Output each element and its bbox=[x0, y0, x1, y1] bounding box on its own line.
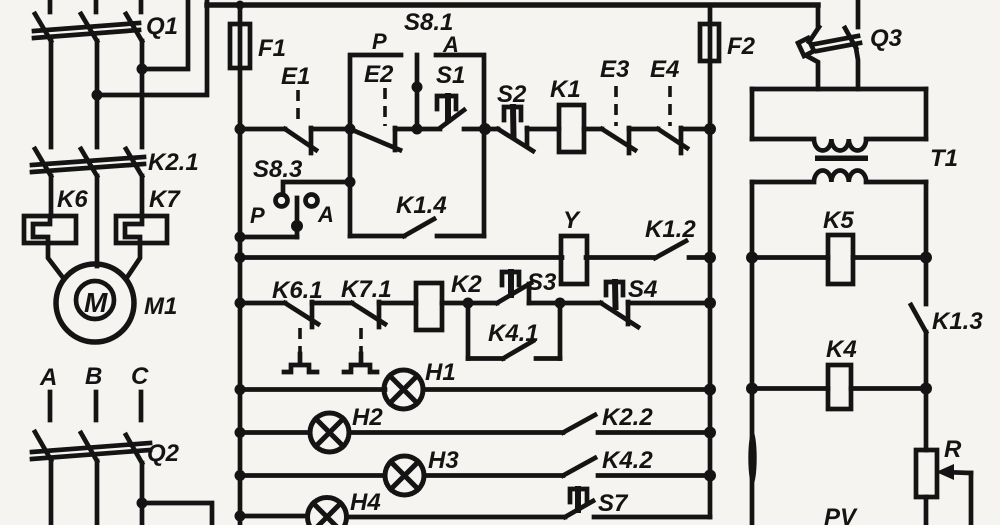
S1 comb bbox=[437, 96, 456, 109]
node K4 left bbox=[746, 383, 758, 395]
thermal contact E3 bbox=[600, 56, 658, 153]
svg-text:K5: K5 bbox=[823, 207, 854, 234]
T1 secondary top with winding bbox=[752, 170, 926, 182]
S7 comb bbox=[570, 489, 587, 502]
blob on PV branch bbox=[748, 431, 756, 485]
node pole3 tap bbox=[137, 64, 148, 75]
wire S7 right bbox=[594, 515, 710, 520]
relay coil K4 row bbox=[746, 336, 932, 409]
Q3 left pole bbox=[816, 5, 821, 27]
K4.2 blade bbox=[563, 458, 595, 476]
wire H1 left bbox=[240, 387, 385, 392]
E2 actuator dashed bbox=[383, 88, 387, 126]
K7.1 dashed link bbox=[359, 328, 363, 357]
K2.1 linkage bar bbox=[32, 157, 144, 165]
relay coil K5 row bbox=[746, 207, 932, 284]
wire Q2 pole2 down bbox=[95, 461, 100, 525]
wire x350 vertical row1 to K1.4 bbox=[348, 129, 353, 236]
switch Q2 three-pole bbox=[32, 432, 180, 467]
T1 primary left side bbox=[750, 89, 755, 139]
wire H4 left bbox=[240, 514, 307, 519]
svg-text:K6: K6 bbox=[57, 186, 88, 213]
wire above R bbox=[924, 389, 929, 451]
Q3 fuse marker square bbox=[798, 38, 814, 56]
Q1 blade pole2 bbox=[81, 14, 97, 41]
svg-text:H3: H3 bbox=[428, 447, 459, 474]
svg-text:S4: S4 bbox=[628, 276, 657, 303]
wire row3 seg1 bbox=[240, 301, 285, 306]
svg-text:K4: K4 bbox=[826, 336, 857, 363]
fuse F1 bbox=[230, 5, 286, 68]
wire pole1 Q1 to K2.1 bbox=[49, 41, 54, 147]
svg-text:F1: F1 bbox=[258, 35, 286, 62]
switch Q1 three-pole bbox=[34, 0, 178, 41]
node Q2 pole3 branch bbox=[137, 498, 148, 509]
K4.1 blade bbox=[503, 341, 533, 359]
R wiper arrow bbox=[944, 472, 971, 473]
wire H1 right bbox=[423, 387, 710, 392]
S4 fixed stub bbox=[626, 302, 631, 324]
S4 blade bbox=[601, 303, 638, 327]
wire pole2 tap to top bbox=[97, 0, 207, 95]
svg-text:K7: K7 bbox=[149, 186, 181, 213]
node C incoming phase bbox=[131, 363, 149, 420]
wire row2 seg1 bbox=[240, 255, 562, 260]
E1 actuator dashed bbox=[296, 90, 300, 125]
K6.1 manual head bbox=[284, 354, 317, 372]
node H1 right bus bbox=[704, 384, 716, 396]
E4 actuator dashed bbox=[668, 86, 672, 126]
Q2 blade pole1 bbox=[35, 432, 51, 460]
wire S8.3 P to node bbox=[283, 182, 350, 194]
wire Q1 pole3 top stub bbox=[139, 0, 144, 12]
switch Q3 two-pole bbox=[798, 0, 903, 89]
wire S8.3 rail bbox=[240, 235, 297, 240]
wire K6 to motor bbox=[48, 243, 64, 279]
Q3 right drop bbox=[856, 48, 858, 89]
node H2 right bus bbox=[704, 427, 716, 439]
wire K4.1 left bbox=[468, 356, 503, 361]
S1 blade bbox=[440, 110, 464, 128]
wire row3 seg4 bbox=[628, 301, 710, 306]
node row2 right bus bbox=[704, 252, 716, 264]
K2.1 blade pole2 bbox=[81, 149, 97, 176]
S2 comb bbox=[504, 107, 521, 120]
Q3 right blade bbox=[845, 28, 856, 48]
node A incoming phase bbox=[39, 364, 57, 420]
K2.1 blade pole1 bbox=[35, 149, 51, 176]
wire K5 right bbox=[853, 255, 926, 260]
svg-text:K1: K1 bbox=[550, 76, 581, 103]
svg-text:B: B bbox=[85, 363, 102, 390]
wire H4 mid bbox=[347, 515, 565, 520]
svg-text:T1: T1 bbox=[930, 145, 958, 172]
S2 fixed stub bbox=[525, 128, 530, 144]
wire row2 seg2 bbox=[586, 255, 655, 260]
S8.1 roof A side bbox=[436, 55, 484, 129]
wire Q1 pole1 top stub bbox=[48, 0, 53, 12]
S3 comb bbox=[502, 272, 519, 285]
svg-text:Y: Y bbox=[563, 207, 581, 234]
K2.1 blade pole3 bbox=[126, 149, 142, 176]
svg-text:S2: S2 bbox=[497, 81, 527, 108]
node bus row3 left bbox=[235, 298, 246, 309]
wire Q2 pole1 down bbox=[49, 460, 54, 525]
clutch coil K6 bbox=[24, 186, 88, 243]
lamp row H1 bbox=[235, 359, 717, 409]
T1 primary yoke bbox=[752, 87, 926, 92]
svg-text:K1.2: K1.2 bbox=[645, 216, 696, 243]
svg-text:A: A bbox=[317, 202, 334, 227]
node K4 right bbox=[920, 383, 932, 395]
wire K5 left bbox=[752, 255, 828, 260]
svg-text:C: C bbox=[131, 363, 149, 390]
relay coil K5 bbox=[828, 235, 853, 284]
node bus H2 bbox=[235, 427, 246, 438]
wire row3 seg3 bbox=[529, 301, 601, 306]
S8.3 contact P circle bbox=[276, 195, 288, 207]
Q2 blade pole2 bbox=[81, 433, 97, 461]
K1.3 blade bbox=[911, 305, 926, 332]
svg-text:H1: H1 bbox=[425, 359, 456, 386]
node row1 x485 bbox=[479, 123, 491, 135]
wire H3 mid bbox=[424, 473, 563, 478]
node row1 x350 bbox=[345, 124, 356, 135]
contact K6.1 bbox=[272, 277, 352, 372]
wire left branch down to PV bbox=[750, 258, 755, 525]
S4 comb bbox=[606, 282, 623, 295]
node bus row2 left bbox=[235, 252, 246, 263]
pushbutton S2 bbox=[497, 81, 533, 151]
wire K1.2 right bbox=[689, 255, 710, 260]
relay coil K1 bbox=[550, 76, 584, 152]
pushbutton S4 bbox=[601, 276, 657, 327]
coil Y electromagnet bbox=[561, 207, 587, 284]
svg-text:K1.4: K1.4 bbox=[396, 192, 447, 219]
contact K7.1 bbox=[341, 276, 416, 372]
selector switch S8.3 bbox=[235, 156, 356, 243]
fuse F2 bbox=[700, 5, 756, 61]
wire K4 left bbox=[752, 386, 828, 391]
node bus H1 bbox=[235, 384, 246, 395]
svg-text:K4.1: K4.1 bbox=[488, 320, 539, 347]
wire H3 left bbox=[240, 473, 385, 478]
contactor K2.1 three-pole bbox=[32, 149, 199, 176]
lamp row H3 with contact K4.2 bbox=[235, 447, 717, 495]
Q1 blade pole3 bbox=[126, 14, 142, 41]
thermal contact E2 bbox=[350, 61, 417, 150]
Q3 right pole bbox=[856, 0, 861, 27]
wire right control bus bbox=[708, 61, 713, 517]
node bus S8.3 rail bbox=[235, 232, 246, 243]
Q3 linkage bar bbox=[815, 36, 858, 44]
Q2 linkage bar bbox=[32, 443, 150, 452]
wire K1.4 left bbox=[350, 234, 404, 239]
wire K2.2 right bbox=[598, 430, 710, 435]
T1 secondary left side bbox=[750, 182, 755, 258]
wire row1 seg5 bbox=[527, 127, 559, 132]
transformer T1 bbox=[752, 89, 958, 258]
wire below K1.3 bbox=[924, 332, 929, 389]
node row1 right bus bbox=[704, 123, 716, 135]
lamp row H4 with pushbutton S7 bbox=[235, 489, 711, 525]
contact K1.2 bbox=[645, 216, 710, 258]
wire row3 seg2 bbox=[442, 301, 497, 306]
S3 fixed stub bbox=[527, 284, 532, 303]
svg-text:S8.3: S8.3 bbox=[253, 156, 303, 183]
svg-text:K7.1: K7.1 bbox=[341, 276, 392, 303]
svg-text:E2: E2 bbox=[364, 61, 394, 88]
node B incoming phase bbox=[85, 363, 102, 420]
svg-text:A: A bbox=[39, 364, 57, 391]
wire branch right down bbox=[142, 503, 212, 525]
node row3 x560 bbox=[555, 298, 566, 309]
svg-text:K1.3: K1.3 bbox=[932, 308, 983, 335]
K7.1 manual head bbox=[344, 354, 377, 372]
S2 blade bbox=[498, 129, 533, 151]
contact K4.1 bypass bbox=[468, 303, 560, 359]
wire K4.1 right bbox=[536, 356, 560, 361]
wire below R bbox=[924, 497, 929, 525]
wire top control bus bbox=[207, 2, 818, 8]
wire pole3 to K7 bbox=[140, 176, 145, 216]
svg-text:F2: F2 bbox=[727, 33, 756, 60]
wire x484 vertical row1 to K1.4 bbox=[482, 129, 487, 236]
wire K4.1 right rise bbox=[558, 303, 563, 359]
wire H2 left bbox=[240, 430, 310, 435]
clutch coil K7 bbox=[116, 186, 181, 243]
wire above K1.3 bbox=[924, 258, 929, 305]
svg-text:Q2: Q2 bbox=[147, 440, 180, 467]
wire pole2 Q1 to K2.1 bbox=[95, 41, 100, 147]
motor M1 bbox=[56, 264, 177, 342]
K1.4 blade bbox=[404, 219, 434, 236]
wire K4.1 left drop bbox=[466, 303, 471, 359]
contact K1.3 bbox=[911, 258, 983, 389]
svg-text:Q3: Q3 bbox=[870, 25, 903, 52]
node bus H3 bbox=[235, 470, 246, 481]
S3 blade bbox=[497, 283, 531, 303]
wire row1 seg3 bbox=[417, 127, 440, 132]
node row3 x468 bbox=[463, 298, 474, 309]
wire pole3 Q1 to K2.1 bbox=[140, 41, 145, 147]
S8.3 pole bbox=[295, 198, 300, 237]
node K5 right bbox=[920, 252, 932, 264]
node S8.1 pivot bbox=[412, 82, 423, 93]
S8.1 common pole bbox=[415, 55, 420, 129]
lamp H2 bbox=[310, 413, 349, 452]
svg-text:M1: M1 bbox=[144, 293, 177, 320]
node bus H4 bbox=[235, 511, 246, 522]
wire K4.2 right bbox=[598, 473, 710, 478]
svg-text:Q1: Q1 bbox=[146, 13, 178, 40]
wire row1 seg1 bbox=[240, 127, 285, 132]
wire wiper down bbox=[969, 473, 974, 525]
node bus row1 left bbox=[235, 124, 246, 135]
svg-text:K4.2: K4.2 bbox=[602, 447, 653, 474]
lamp H3 bbox=[385, 456, 424, 495]
svg-text:P: P bbox=[372, 29, 387, 54]
node row3 right bus bbox=[704, 297, 716, 309]
K2.2 blade bbox=[563, 415, 595, 433]
svg-text:P: P bbox=[250, 203, 265, 228]
K6.1 dashed link bbox=[298, 328, 302, 357]
E3 actuator dashed bbox=[614, 86, 618, 126]
svg-text:E3: E3 bbox=[600, 56, 630, 83]
lamp H1 bbox=[384, 370, 423, 409]
Q1 linkage bar bbox=[34, 23, 139, 31]
wire Q1 pole2 top stub bbox=[94, 0, 99, 12]
node S8.3 pole bbox=[291, 220, 303, 232]
T1 core bbox=[815, 156, 868, 162]
S8.1 roof P side bbox=[350, 55, 401, 129]
svg-text:S3: S3 bbox=[527, 269, 557, 296]
wire left control bus bbox=[238, 68, 243, 525]
Q3 left blade bbox=[809, 27, 819, 42]
svg-text:K2: K2 bbox=[451, 271, 482, 298]
svg-text:H2: H2 bbox=[352, 404, 383, 431]
thermal contact E1 bbox=[281, 63, 350, 153]
wire H2 mid bbox=[349, 430, 563, 435]
wire K4 right bbox=[851, 386, 926, 391]
S8.3 contact A circle bbox=[306, 195, 318, 207]
Q1 blade pole1 bbox=[35, 14, 51, 41]
svg-text:K2.1: K2.1 bbox=[148, 149, 199, 176]
svg-text:E4: E4 bbox=[650, 56, 679, 83]
node K5 left bbox=[746, 252, 758, 264]
node row1 x417 bbox=[412, 124, 423, 135]
svg-text:K2.2: K2.2 bbox=[602, 404, 653, 431]
K1.2 blade bbox=[655, 241, 686, 258]
lamp H4 bbox=[308, 498, 347, 525]
S7 blade bbox=[565, 501, 593, 517]
svg-text:M: M bbox=[84, 287, 108, 318]
svg-text:S7: S7 bbox=[598, 490, 629, 517]
thermal contact E4 bbox=[650, 56, 710, 153]
wire row1 seg4 bbox=[464, 127, 498, 132]
Q3 left drop bbox=[807, 56, 818, 89]
node x350 y182 bbox=[345, 177, 356, 188]
T1 primary right side bbox=[924, 89, 929, 139]
wire pole1 to K6 bbox=[49, 176, 54, 216]
selector switch S8.1 bbox=[350, 9, 484, 129]
T1 primary bottom with winding bbox=[752, 139, 926, 151]
Q2 blade pole3 bbox=[126, 435, 142, 463]
wire pole2 to motor bbox=[95, 176, 100, 266]
lamp row H2 with contact K2.2 bbox=[235, 404, 717, 452]
svg-text:E1: E1 bbox=[281, 63, 310, 90]
T1 secondary right side bbox=[924, 182, 929, 258]
wire row1 seg6 bbox=[584, 127, 602, 132]
pushbutton S1 bbox=[436, 62, 465, 128]
node H3 right bus bbox=[704, 470, 716, 482]
rheostat R bbox=[916, 389, 971, 525]
relay coil K2 bbox=[416, 271, 482, 330]
svg-text:S1: S1 bbox=[436, 62, 465, 89]
wire Q2 pole3 down bbox=[140, 463, 145, 525]
wire K1.4 right bbox=[437, 234, 484, 239]
pushbutton S3 bbox=[497, 269, 557, 303]
svg-text:PV: PV bbox=[824, 504, 858, 525]
svg-text:H4: H4 bbox=[350, 489, 381, 516]
svg-text:K6.1: K6.1 bbox=[272, 277, 323, 304]
wire K7 to motor bbox=[126, 243, 140, 279]
node bus F1 bbox=[236, 1, 245, 10]
svg-text:A: A bbox=[442, 32, 459, 57]
wire pole3 tap to top bbox=[142, 0, 188, 69]
node pole2 tap bbox=[92, 90, 103, 101]
svg-text:R: R bbox=[944, 436, 962, 463]
contact K1.4 bbox=[350, 192, 484, 236]
relay coil K4 bbox=[828, 365, 851, 409]
